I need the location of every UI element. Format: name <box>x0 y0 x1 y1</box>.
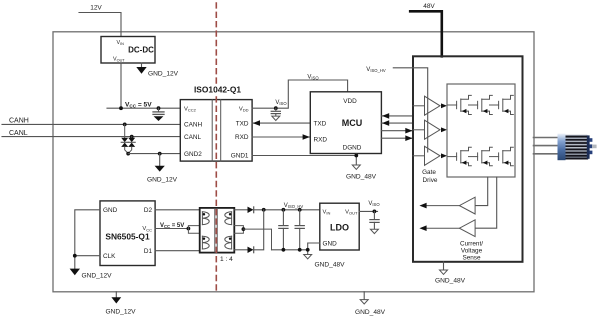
FET row2 Q6 <box>490 147 514 166</box>
svg-text:GND: GND <box>103 207 118 214</box>
junction <box>262 208 266 212</box>
wire diode D4 up to rail <box>254 210 264 250</box>
secondary winding upper <box>225 212 232 225</box>
junction <box>158 152 162 156</box>
gate drive buffer 3 <box>413 146 447 165</box>
svg-text:VISO: VISO <box>307 75 319 81</box>
wire bridge to sense amp 2 <box>475 177 497 228</box>
node 12V <box>79 5 121 37</box>
capacitor at LDO output with GND_48V <box>370 211 379 233</box>
svg-text:VISO: VISO <box>368 201 380 207</box>
svg-text:GND_12V: GND_12V <box>148 71 179 78</box>
phase wire U <box>534 137 558 139</box>
svg-text:D2: D2 <box>144 207 153 214</box>
SN6505-Q1 block <box>100 201 155 266</box>
svg-text:VOUT: VOUT <box>345 210 358 216</box>
svg-text:VISO_HV: VISO_HV <box>366 67 386 73</box>
TVS diode pair on CANL <box>128 135 135 154</box>
sense amp 1 <box>419 197 475 214</box>
wire bridge to sense amp 1 <box>475 177 488 206</box>
svg-text:VISO: VISO <box>275 100 287 106</box>
svg-text:VCC2: VCC2 <box>184 107 197 113</box>
phase wire W <box>534 153 558 155</box>
svg-text:CANH: CANH <box>9 117 29 124</box>
svg-text:Drive: Drive <box>423 177 438 184</box>
svg-text:GND: GND <box>323 241 338 248</box>
FET row1 Q2 <box>469 95 493 114</box>
svg-text:Voltage: Voltage <box>461 248 483 255</box>
label Gate Drive <box>422 169 438 184</box>
wire GND2 rail <box>128 153 180 155</box>
node 48V <box>410 3 442 56</box>
svg-text:GND_48V: GND_48V <box>355 309 386 316</box>
transformer T1 <box>200 208 235 263</box>
junction <box>119 106 123 110</box>
capacitor bypass on 5V rail with ground <box>153 108 164 121</box>
junction <box>73 254 77 258</box>
svg-text:VCC: VCC <box>142 226 152 232</box>
svg-text:GND_48V: GND_48V <box>435 278 466 285</box>
ground GND_12V at bottom rail <box>106 292 137 316</box>
label ISO1042-Q1 <box>193 84 242 95</box>
svg-text:D1: D1 <box>144 248 153 255</box>
isolation barrier dashed line <box>215 3 217 292</box>
svg-text:CLK: CLK <box>103 253 116 260</box>
capacitor on V_ISO with GND_48V <box>271 108 280 120</box>
primary winding upper <box>202 212 209 225</box>
svg-text:VDD: VDD <box>343 98 357 105</box>
svg-text:GND_48V: GND_48V <box>315 262 346 269</box>
wire V_OUT down to 5V rail <box>120 63 122 108</box>
FET row2 Q4 <box>448 147 472 166</box>
svg-text:CANL: CANL <box>184 134 201 141</box>
svg-text:GND2: GND2 <box>184 151 202 158</box>
diode D3 <box>248 207 254 213</box>
ground GND_48V at module <box>435 262 466 285</box>
wire secondary centre tap <box>234 226 271 250</box>
svg-text:ISO1042-Q1: ISO1042-Q1 <box>194 85 241 95</box>
node VCC = 5V at SN6505 <box>155 223 200 233</box>
capacitor filter 1 <box>279 208 288 252</box>
svg-text:Gate: Gate <box>422 169 436 176</box>
junction at TVS common <box>126 152 130 156</box>
label Current/Voltage Sense <box>460 241 483 262</box>
gate drive buffer 1 <box>413 96 447 115</box>
wire secondary top to diode <box>234 209 247 211</box>
wire V_ISO_HV rail <box>254 209 320 211</box>
node CANL <box>2 130 180 137</box>
svg-text:GND_48V: GND_48V <box>346 174 377 181</box>
node V_ISO at ISO1042 VDD <box>252 80 348 110</box>
svg-text:CANH: CANH <box>184 122 202 129</box>
node CANH <box>2 117 180 124</box>
secondary winding lower <box>225 236 232 249</box>
wire secondary bottom to diode <box>234 249 247 251</box>
MOSFET bridge box <box>447 84 515 177</box>
svg-text:CANL: CANL <box>9 130 28 137</box>
svg-text:GND_12V: GND_12V <box>82 273 113 280</box>
capacitor filter 2 <box>295 208 304 252</box>
wire sense feedback 2 into MCU <box>381 120 413 126</box>
wire PWM 2 into gate drive block <box>381 135 413 141</box>
svg-text:1 : 4: 1 : 4 <box>220 256 233 263</box>
svg-text:MCU: MCU <box>342 118 363 128</box>
svg-text:GND1: GND1 <box>231 153 249 160</box>
wire V_ISO_HV into gate drive <box>393 68 427 152</box>
ground GND_48V at MCU DGND <box>346 154 377 181</box>
svg-text:DC-DC: DC-DC <box>128 46 154 55</box>
phase wire V <box>534 145 558 147</box>
svg-text:48V: 48V <box>423 3 435 10</box>
MCU block <box>310 92 381 154</box>
wire 5V rail <box>107 107 180 109</box>
sense amp 2 <box>419 220 475 237</box>
svg-text:TXD: TXD <box>236 120 249 127</box>
svg-text:GND_12V: GND_12V <box>147 177 178 184</box>
FET row1 Q1 <box>448 95 472 114</box>
wire LDO VOUT / node V_ISO <box>359 201 380 213</box>
svg-text:12V: 12V <box>90 5 102 12</box>
wire PWM 1 into gate drive block <box>381 128 413 134</box>
svg-text:VDD: VDD <box>239 107 249 113</box>
svg-text:DGND: DGND <box>343 144 362 151</box>
junction <box>157 106 161 110</box>
FET row1 Q3 <box>490 95 514 114</box>
wire D2 to transformer <box>155 209 200 211</box>
ground GND_48V at bottom rail <box>355 292 386 316</box>
outer enclosure box <box>53 32 534 292</box>
dc-dc converter <box>101 37 155 64</box>
gate drive buffer 2 <box>413 120 447 139</box>
svg-text:VCC = 5V: VCC = 5V <box>125 102 152 109</box>
wire sense feedback 1 into MCU <box>381 113 413 119</box>
transceiver ISO1042-Q1 <box>180 100 252 162</box>
svg-text:VISO_HV: VISO_HV <box>284 203 304 209</box>
ground GND_12V at SN6505 <box>70 269 113 280</box>
motor <box>558 134 597 161</box>
primary winding lower <box>202 236 209 249</box>
LDO block <box>320 203 359 250</box>
ground GND_12V at DC-DC <box>136 63 178 78</box>
svg-text:Current/: Current/ <box>460 241 483 248</box>
svg-text:SN6505-Q1: SN6505-Q1 <box>105 232 150 242</box>
svg-text:RXD: RXD <box>314 137 328 144</box>
wire secondary ground rail <box>272 249 308 251</box>
inverter / gate-drive module block <box>413 56 523 261</box>
wire GND1 to DGND <box>252 155 356 157</box>
svg-text:VIN: VIN <box>323 210 331 216</box>
wire TXD with arrow into ISO1042 <box>252 120 310 126</box>
svg-text:RXD: RXD <box>235 134 249 141</box>
wire RXD with arrow into MCU <box>252 134 310 140</box>
wire LDO GND to ground <box>304 243 345 269</box>
wire D1 to transformer <box>155 250 200 252</box>
svg-text:GND_12V: GND_12V <box>106 309 137 316</box>
ground GND_12V on GND2 rail <box>147 154 178 184</box>
svg-text:Sense: Sense <box>462 255 481 262</box>
svg-text:LDO: LDO <box>330 223 349 233</box>
TVS diode pair on CANH <box>121 123 128 154</box>
diode D4 <box>248 247 254 253</box>
wire GND+CLK to ground <box>75 210 100 269</box>
FET row2 Q5 <box>469 147 493 166</box>
svg-text:TXD: TXD <box>314 120 327 127</box>
